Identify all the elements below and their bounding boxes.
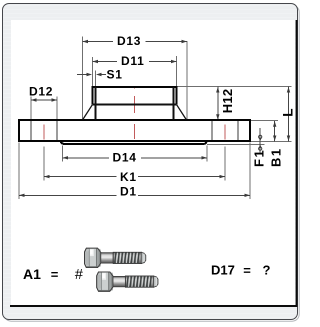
svg-text:D17: D17 [211, 262, 235, 277]
svg-text:?: ? [263, 262, 271, 277]
svg-text:D14: D14 [113, 150, 137, 164]
svg-text:D11: D11 [121, 54, 144, 68]
svg-text:B1: B1 [268, 147, 283, 167]
svg-text:A1: A1 [23, 266, 41, 282]
svg-text:D1: D1 [120, 185, 137, 199]
svg-text:S1: S1 [107, 68, 123, 82]
svg-text:K1: K1 [120, 170, 137, 184]
svg-text:=: = [51, 267, 59, 282]
svg-text:D12: D12 [29, 85, 53, 99]
svg-text:#: # [75, 267, 84, 283]
svg-text:F1: F1 [251, 149, 266, 167]
svg-text:D13: D13 [117, 34, 141, 48]
svg-text:=: = [243, 263, 251, 278]
svg-text:H12: H12 [220, 89, 235, 114]
svg-text:L: L [281, 108, 296, 117]
